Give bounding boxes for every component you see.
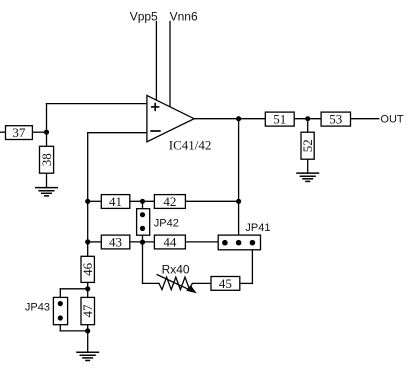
svg-text:JP43: JP43 <box>25 302 50 314</box>
svg-text:52: 52 <box>300 139 315 152</box>
svg-text:47: 47 <box>80 304 95 318</box>
svg-text:OUT: OUT <box>380 114 404 126</box>
svg-text:42: 42 <box>163 194 176 209</box>
svg-text:JP42: JP42 <box>154 218 179 230</box>
svg-text:Vnn6: Vnn6 <box>170 10 198 24</box>
svg-text:51: 51 <box>273 112 286 127</box>
svg-text:46: 46 <box>80 262 95 276</box>
svg-text:37: 37 <box>12 125 26 140</box>
svg-text:Rx40: Rx40 <box>162 262 190 276</box>
svg-text:JP41: JP41 <box>245 222 270 234</box>
svg-text:43: 43 <box>109 234 122 249</box>
svg-text:53: 53 <box>329 112 342 127</box>
svg-text:45: 45 <box>219 276 232 291</box>
svg-text:41: 41 <box>109 194 122 209</box>
svg-text:IC41/42: IC41/42 <box>169 138 212 153</box>
svg-text:Vpp5: Vpp5 <box>130 10 158 24</box>
svg-text:38: 38 <box>39 153 54 166</box>
svg-text:44: 44 <box>163 234 177 249</box>
